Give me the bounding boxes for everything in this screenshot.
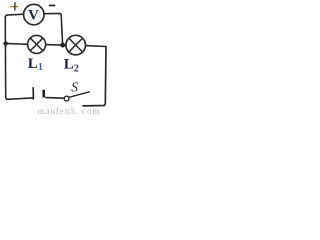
wire battery to switch: [45, 97, 64, 100]
node left junction: [3, 41, 7, 45]
wire left rail bottom + bottom wire to battery: [5, 43, 32, 99]
svg-text:V: V: [28, 8, 39, 24]
wire top-left run (left rail top + top wire to voltmeter): [5, 14, 24, 43]
wire right rail: [83, 47, 106, 106]
wire lamp row left: [5, 42, 27, 45]
wire lamp row right to right rail: [86, 45, 106, 48]
switch S blade: [69, 92, 90, 98]
battery B1 short thick plate: [42, 90, 45, 98]
lamp L1: [28, 35, 46, 53]
switch S pivot contact: [64, 96, 69, 101]
svg-text:S: S: [71, 80, 78, 95]
lamp L2: [66, 35, 86, 55]
voltmeter U1: [24, 4, 44, 24]
wire between lamps: [46, 44, 66, 47]
minus terminal label: [49, 5, 55, 7]
wire voltmeter right to mid node: [44, 13, 62, 44]
svg-text:manfen5. com: manfen5. com: [38, 106, 101, 116]
battery B1 long plate: [32, 87, 34, 99]
node mid junction: [60, 43, 65, 48]
plus terminal label: [11, 2, 18, 10]
